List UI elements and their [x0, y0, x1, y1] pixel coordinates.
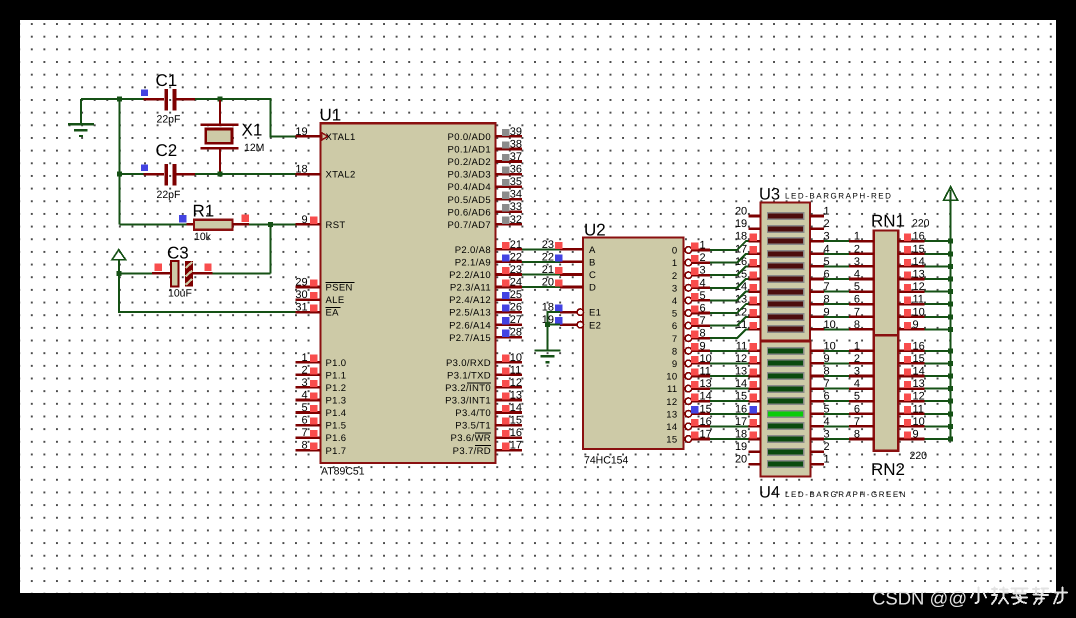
junction node B [117, 172, 122, 177]
RN2 pin 15 [898, 353, 924, 365]
wire U2 out6 to U3 pin 12 [710, 317, 749, 326]
wire RN1 pin 13 to VCC rail [925, 278, 951, 280]
svg-text:E1: E1 [589, 308, 601, 319]
U4 pin 3 [811, 429, 830, 441]
U3 pin 12 [735, 306, 761, 318]
svg-text:16: 16 [510, 427, 522, 439]
svg-text:6: 6 [854, 403, 860, 415]
junction RST node [268, 222, 273, 227]
power arrow (C3 node) [112, 250, 126, 274]
U3 pin 9 [810, 306, 830, 318]
U1 pin 36 (P0.3/AD3) [448, 164, 523, 181]
wire U2 out5 to U3 pin 13 [710, 304, 749, 313]
wire U2 out11 to U4 pin 14 [710, 388, 749, 390]
svg-text:30: 30 [295, 289, 307, 301]
U4 pin 6 [811, 391, 830, 403]
RN2 pin 14 [898, 366, 924, 378]
U2 pin 16 (output 14) [666, 416, 712, 433]
U4 pin 14 [735, 378, 761, 390]
RN2 pin 13 [898, 378, 924, 390]
U4 pin 18 [735, 429, 761, 441]
U2 pin 11 (output 10) [666, 366, 711, 383]
svg-text:12: 12 [913, 391, 925, 403]
svg-text:7: 7 [672, 334, 678, 345]
svg-text:2: 2 [700, 252, 706, 264]
junction power node [116, 271, 121, 276]
U4 pin 2 [811, 441, 830, 453]
svg-text:22: 22 [542, 251, 554, 263]
RN1 pin 13 [898, 269, 924, 281]
U4 pin 20 [735, 454, 761, 466]
RN1 pin 5 [849, 281, 874, 293]
U3 pin 3 [810, 231, 830, 243]
svg-text:P3.6/WR: P3.6/WR [451, 433, 491, 444]
svg-text:1: 1 [301, 352, 307, 364]
svg-text:P1.3: P1.3 [326, 396, 347, 407]
RN2 pin 3 [849, 366, 874, 378]
svg-text:13: 13 [913, 378, 925, 390]
junction rail RN2-13 [948, 386, 953, 391]
U1 pin 3 (P1.2) [296, 377, 347, 394]
wire C3 left to power junction [119, 272, 152, 274]
svg-text:7: 7 [700, 315, 706, 327]
resistor-network RN2 body [874, 335, 899, 450]
svg-text:P3.4/T0: P3.4/T0 [455, 408, 491, 419]
junction rail RN1-10 [948, 314, 953, 319]
U4 pin 11 [736, 340, 761, 352]
wire RN1 pin 12 to VCC rail [925, 291, 951, 293]
svg-text:12: 12 [510, 377, 522, 389]
svg-text:39: 39 [510, 126, 522, 138]
wire U2 out1 to U3 pin 17 [710, 254, 749, 263]
U2 pin 1 (output 0) [672, 240, 710, 257]
wire X1top to XTAL1 corner [220, 99, 296, 136]
U3 pin 6 [810, 269, 830, 281]
U2 pin 4 (output 3) [672, 277, 710, 294]
U2 pin 17 (output 15) [666, 429, 712, 446]
U4 pin 1 [811, 454, 830, 466]
U1 pin 11 (P3.1/TXD) [447, 364, 522, 381]
svg-text:27: 27 [510, 314, 522, 326]
U3 red led segment 3 [767, 237, 805, 245]
wire RN2 pin 14 to VCC rail [925, 375, 951, 377]
wire U2 out12 to U4 pin 15 [710, 400, 749, 402]
svg-text:P0.6/AD6: P0.6/AD6 [448, 207, 491, 218]
wire RN1 pin 10 to VCC rail [925, 316, 951, 318]
wire C3 row right segment [213, 272, 271, 274]
wire U4 pin 9 to RN2 pin 2 [824, 362, 849, 364]
resistor-network RN1 body [874, 231, 899, 336]
junction rail RN1-14 [948, 264, 953, 269]
svg-text:2: 2 [824, 218, 830, 230]
wire U3 pin 6 to RN1 pin 4 [824, 278, 849, 280]
svg-text:2: 2 [854, 243, 860, 255]
svg-text:18: 18 [295, 164, 307, 176]
svg-text:P3.2/INT0: P3.2/INT0 [445, 383, 491, 394]
U4 pin 12 [735, 353, 761, 365]
svg-text:P1.2: P1.2 [326, 383, 347, 394]
U4 pin 4 [811, 416, 830, 428]
U1 pin 29 (PSEN) [295, 277, 354, 294]
U4 pin 16 [735, 403, 761, 415]
svg-text:1: 1 [672, 258, 678, 269]
RN2 pin 5 [849, 391, 874, 403]
U1 pin 7 (P1.6) [296, 427, 347, 444]
RN1 pin 8 [849, 319, 874, 331]
junction rail RN2-11 [948, 411, 953, 416]
wire U2 out4 to U3 pin 14 [710, 292, 749, 301]
wire P2.0 to U2 A [522, 248, 560, 250]
svg-text:P1.0: P1.0 [326, 358, 347, 369]
RN1 pin 9 [898, 319, 924, 331]
wire RN2 pin 9 to VCC rail [925, 438, 951, 440]
U2 pin 9 (output 8) [672, 340, 710, 357]
svg-text:RN2: RN2 [871, 460, 905, 479]
svg-text:1: 1 [854, 231, 860, 243]
U2 pin 13 (output 11) [667, 378, 712, 395]
svg-text:RN1: RN1 [871, 212, 905, 231]
svg-text:P0.1/AD1: P0.1/AD1 [448, 145, 491, 156]
U1 pin 9 (RST) [296, 214, 346, 231]
U4 pin 9 [811, 353, 830, 365]
RN2 pin 2 [849, 353, 874, 365]
U1 pin 8 (P1.7) [296, 440, 347, 457]
U2 pin 8 (output 7) [672, 328, 710, 345]
U1 pin 33 (P0.6/AD6) [448, 201, 523, 218]
U2 pin 15 (output 13) [666, 403, 712, 420]
wire RN1 pin 15 to VCC rail [925, 253, 951, 255]
U3 red led segment 4 [767, 250, 805, 258]
wire P2.1 to U2 B [522, 261, 560, 263]
wire U3 pin 3 to RN1 pin 1 [824, 240, 849, 242]
wire U4 pin 6 to RN2 pin 5 [824, 400, 849, 402]
U1 pin 15 (P3.5/T1) [455, 415, 522, 432]
svg-text:22pF: 22pF [157, 114, 181, 126]
RN2 pin 9 [898, 429, 924, 441]
ground (U2 enables) [535, 351, 561, 363]
svg-text:220: 220 [912, 218, 930, 230]
svg-text:17: 17 [510, 440, 522, 452]
svg-text:22pF: 22pF [157, 189, 181, 201]
junction rail RN2-10 [948, 424, 953, 429]
U4 pin 19 [735, 441, 761, 453]
svg-text:23: 23 [542, 239, 554, 251]
svg-text:14: 14 [510, 402, 522, 414]
svg-text:21: 21 [542, 264, 554, 276]
svg-text:P3.5/T1: P3.5/T1 [455, 421, 491, 432]
wire E1-E2 tie [548, 312, 561, 325]
svg-text:P0.2/AD2: P0.2/AD2 [448, 157, 491, 168]
wire R1 to RST [249, 223, 296, 225]
svg-text:U4: U4 [759, 484, 780, 502]
RN2 pin 4 [849, 378, 874, 390]
svg-text:P1.6: P1.6 [326, 433, 347, 444]
svg-text:9: 9 [672, 359, 678, 370]
U2 pin 21 (C) [542, 264, 596, 281]
U3 pin 20 [735, 206, 761, 218]
wire RN2 pin 11 to VCC rail [925, 413, 951, 415]
svg-text:13: 13 [510, 389, 522, 401]
svg-text:21: 21 [510, 239, 522, 251]
U1 pin 18 (XTAL2) [295, 164, 355, 181]
U2 pin 2 (output 1) [672, 252, 710, 269]
junction rail RN2-15 [948, 361, 953, 366]
svg-text:CSDN @@: CSDN @@ [872, 588, 967, 609]
svg-text:C: C [589, 270, 596, 281]
wire P2.3 to U2 D [522, 286, 560, 288]
svg-text:6: 6 [672, 321, 678, 332]
svg-text:4: 4 [700, 277, 706, 289]
svg-text:25: 25 [510, 289, 522, 301]
U1 pin 25 (P2.4/A12) [449, 289, 522, 306]
U1 pin 22 (P2.1/A9) [455, 251, 522, 268]
svg-text:P1.1: P1.1 [326, 370, 347, 381]
junction E2 node [545, 322, 550, 327]
RN1 pin 10 [898, 306, 924, 318]
svg-text:12: 12 [913, 281, 925, 293]
svg-text:17: 17 [700, 429, 712, 441]
svg-text:6: 6 [854, 294, 860, 306]
U1 pin 1 (P1.0) [296, 352, 347, 369]
svg-text:P1.7: P1.7 [326, 446, 347, 457]
U1 pin 21 (P2.0/A8) [455, 239, 522, 256]
svg-text:9: 9 [301, 214, 307, 226]
ground (top left) [68, 99, 94, 136]
svg-text:8: 8 [672, 346, 678, 357]
U4 pin 10 [811, 340, 836, 352]
svg-text:29: 29 [295, 277, 307, 289]
wire node-B row [119, 173, 143, 175]
svg-text:19: 19 [295, 126, 307, 138]
U4 green led segment 9 [767, 448, 805, 456]
C2 net state square [141, 165, 148, 172]
wire R1 row [119, 223, 194, 225]
svg-text:15: 15 [913, 353, 925, 365]
U1 pin 27 (P2.6/A14) [449, 314, 522, 331]
RN2 pin 10 [898, 416, 924, 428]
U3 pin 19 [735, 218, 761, 230]
svg-text:P0.4/AD4: P0.4/AD4 [448, 182, 491, 193]
U2 pin 3 (output 2) [672, 265, 710, 282]
svg-text:8: 8 [854, 319, 860, 331]
watermark CSDN [872, 588, 1067, 609]
svg-text:5: 5 [854, 281, 860, 293]
U4 pin 17 [735, 416, 761, 428]
svg-text:9: 9 [913, 319, 919, 331]
svg-text:14: 14 [700, 391, 712, 403]
U1 XTAL1 input marker [322, 133, 328, 140]
svg-text:20: 20 [542, 277, 554, 289]
U4 pin 5 [811, 403, 830, 415]
svg-text:15: 15 [700, 403, 712, 415]
wire U3 pin 4 to RN1 pin 2 [824, 253, 849, 255]
svg-text:P2.5/A13: P2.5/A13 [449, 308, 491, 319]
svg-text:1: 1 [824, 206, 830, 218]
junction rail RN2-14 [948, 374, 953, 379]
svg-text:12: 12 [666, 397, 677, 408]
RN2 pin 7 [849, 416, 874, 428]
U1 pin 4 (P1.3) [296, 389, 347, 406]
svg-text:16: 16 [913, 340, 925, 352]
wire U2 out10 to U4 pin 13 [710, 375, 749, 377]
U1 pin 24 (P2.3/A11) [450, 277, 522, 294]
wire RN2 pin 16 to VCC rail [925, 350, 951, 352]
svg-text:31: 31 [295, 302, 307, 314]
svg-text:37: 37 [510, 151, 522, 163]
svg-text:26: 26 [510, 302, 522, 314]
svg-text:7: 7 [854, 416, 860, 428]
svg-text:P2.0/A8: P2.0/A8 [455, 245, 491, 256]
svg-text:C2: C2 [156, 141, 178, 160]
svg-text:A: A [589, 245, 596, 256]
U1 pin 5 (P1.4) [296, 402, 347, 419]
svg-text:P2.6/A14: P2.6/A14 [449, 320, 491, 331]
svg-text:6: 6 [700, 303, 706, 315]
svg-text:0: 0 [672, 246, 678, 257]
U4 green led segment 2 [767, 359, 805, 367]
svg-text:5: 5 [854, 391, 860, 403]
svg-text:AT89C51: AT89C51 [321, 466, 365, 478]
wire U2 out9 to U4 pin 12 [710, 362, 749, 364]
svg-text:D: D [589, 283, 596, 294]
wire RN1 pin 9 to VCC rail [925, 328, 951, 330]
RN1 pin 4 [849, 269, 874, 281]
U2 pin 23 (A) [542, 239, 596, 256]
wire RN1 pin 14 to VCC rail [925, 265, 951, 267]
svg-text:1: 1 [854, 340, 860, 352]
U1 pin 12 (P3.2/INT0) [445, 377, 522, 394]
wire left vertical C1-C2-R1 [118, 99, 120, 224]
RN2 pin 6 [849, 403, 874, 415]
svg-text:220: 220 [910, 450, 928, 462]
svg-text:P3.0/RXD: P3.0/RXD [446, 358, 491, 369]
svg-text:32: 32 [510, 214, 522, 226]
svg-text:15: 15 [913, 243, 925, 255]
svg-text:2: 2 [301, 364, 307, 376]
wire U4 pin 10 to RN2 pin 1 [824, 350, 849, 352]
U1 pin 17 (P3.7/RD) [453, 440, 522, 457]
junction X1 top [218, 97, 223, 102]
svg-text:15: 15 [510, 415, 522, 427]
junction rail RN1-12 [948, 289, 953, 294]
svg-text:7: 7 [301, 427, 307, 439]
wire U3 pin 8 to RN1 pin 6 [824, 303, 849, 305]
svg-text:34: 34 [510, 189, 522, 201]
svg-text:P0.5/AD5: P0.5/AD5 [448, 195, 491, 206]
junction X1 bottom [218, 172, 223, 177]
U3 pin 11 [736, 319, 761, 331]
svg-text:10: 10 [700, 353, 712, 365]
U3 red led segment 2 [767, 225, 805, 233]
U3 pin 18 [735, 231, 761, 243]
svg-text:P3.3/INT1: P3.3/INT1 [445, 396, 491, 407]
R1 right state square [242, 215, 249, 222]
RN1 pin 12 [898, 281, 924, 293]
svg-text:6: 6 [301, 415, 307, 427]
svg-text:P2.1/A9: P2.1/A9 [455, 258, 491, 269]
U4 green led segment 8 [767, 435, 805, 443]
wire E2 to ground [547, 325, 549, 350]
U2 pin 6 (output 5) [672, 303, 710, 320]
svg-text:5: 5 [700, 290, 706, 302]
U1 pin 38 (P0.1/AD1) [448, 138, 523, 155]
svg-text:P2.4/A12: P2.4/A12 [449, 295, 491, 306]
C3 right state square [204, 264, 211, 271]
svg-text:33: 33 [510, 201, 522, 213]
RN1 pin 2 [849, 243, 874, 255]
wire U4 pin 7 to RN2 pin 4 [824, 388, 849, 390]
svg-text:P2.2/A10: P2.2/A10 [449, 270, 491, 281]
U3 red led segment 6 [767, 275, 805, 283]
svg-text:38: 38 [510, 138, 522, 150]
svg-text:10: 10 [666, 372, 677, 383]
U3 pin 13 [735, 294, 761, 306]
U4 green led segment 10 [767, 460, 805, 468]
U3 pin 8 [810, 294, 830, 306]
U4 green led segment 6 [767, 410, 805, 418]
svg-text:2: 2 [672, 271, 678, 282]
svg-text:4: 4 [854, 269, 860, 281]
C1 net state square [141, 90, 148, 97]
wire U2 out3 to U3 pin 15 [710, 279, 749, 288]
RN2 pin 12 [898, 391, 924, 403]
svg-text:U1: U1 [320, 106, 342, 125]
svg-text:P0.3/AD3: P0.3/AD3 [448, 170, 491, 181]
wire U2 out14 to U4 pin 17 [710, 425, 749, 427]
U3 pin 7 [810, 281, 830, 293]
led-bargraph U3 body [761, 203, 811, 341]
U3 pin 2 [810, 218, 830, 230]
svg-text:1: 1 [824, 454, 830, 466]
U1 pin 16 (P3.6/WR) [451, 427, 523, 444]
RN1 pin 3 [849, 256, 874, 268]
svg-text:LED-BARGRAPH-GREEN: LED-BARGRAPH-GREEN [785, 490, 907, 499]
U1 pin 39 (P0.0/AD0) [448, 126, 523, 143]
wire RN1 pin 16 to VCC rail [925, 240, 951, 242]
U2 pin 20 (D) [542, 277, 596, 294]
svg-text:8: 8 [700, 328, 706, 340]
svg-text:1: 1 [700, 240, 706, 252]
RN2 pin 11 [898, 403, 924, 415]
wire C1 to X1 top [195, 98, 220, 100]
svg-text:74HC154: 74HC154 [584, 455, 629, 467]
svg-text:14: 14 [666, 422, 677, 433]
C3 left state square [155, 264, 162, 271]
wire U4 pin 4 to RN2 pin 7 [824, 425, 849, 427]
svg-text:XTAL2: XTAL2 [326, 170, 356, 181]
crystal X1 [200, 100, 238, 174]
svg-text:3: 3 [854, 256, 860, 268]
U1 pin 37 (P0.2/AD2) [448, 151, 523, 168]
svg-text:P1.5: P1.5 [326, 421, 347, 432]
power arrow (VCC rail) [944, 187, 958, 201]
wire RN2 pin 15 to VCC rail [925, 362, 951, 364]
U4 green led segment 3 [767, 372, 805, 380]
svg-text:C3: C3 [167, 244, 189, 263]
RN1 pin 11 [898, 294, 924, 306]
wire P2.2 to U2 C [522, 273, 560, 275]
U2 pin 10 (output 9) [672, 353, 712, 370]
wire U2 out8 to U4 pin 11 [710, 350, 749, 352]
U4 green led segment 5 [767, 397, 805, 405]
U4 pin 7 [811, 378, 830, 390]
resistor R1 [187, 220, 250, 230]
op-amp U1 body (AT89C51) [321, 123, 496, 463]
U1 pin 32 (P0.7/AD7) [448, 214, 523, 231]
U3 pin 10 [810, 319, 836, 331]
svg-text:12M: 12M [244, 142, 264, 154]
svg-text:4: 4 [854, 378, 860, 390]
